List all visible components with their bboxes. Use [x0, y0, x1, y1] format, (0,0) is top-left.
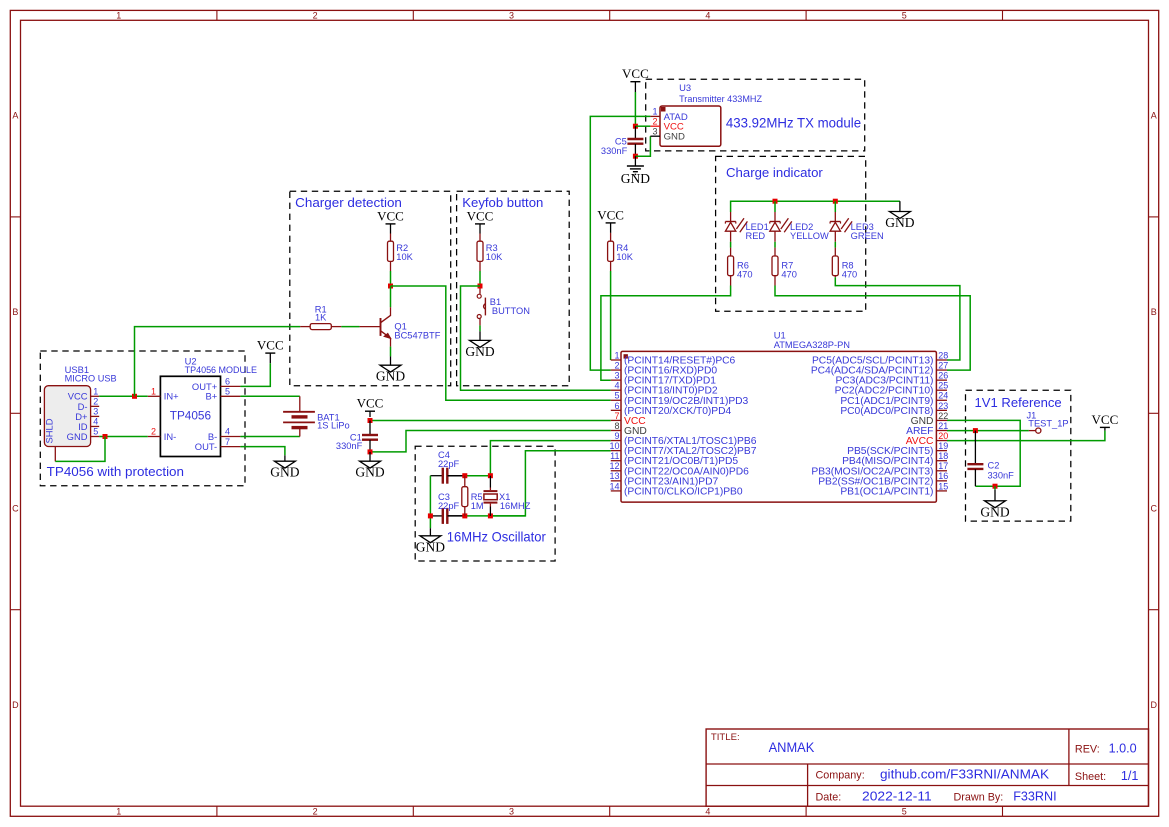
capacitor C5 330nF: [601, 126, 643, 156]
ground below B1: [465, 331, 494, 359]
power VCC above R4: [597, 207, 624, 233]
svg-text:GND: GND: [416, 539, 445, 554]
svg-text:5: 5: [902, 806, 907, 816]
svg-text:4: 4: [614, 381, 619, 391]
svg-text:470: 470: [781, 269, 797, 279]
junction button node: [478, 284, 483, 289]
svg-text:5: 5: [614, 391, 619, 401]
svg-text:18: 18: [938, 451, 948, 461]
resistor R8 470: [832, 248, 857, 280]
svg-text:GND: GND: [270, 465, 299, 480]
svg-text:22pF: 22pF: [438, 459, 460, 469]
svg-text:3: 3: [509, 806, 514, 816]
svg-text:10: 10: [609, 441, 619, 451]
svg-text:Transmitter 433MHZ: Transmitter 433MHZ: [679, 93, 762, 104]
section box 16MHz Oscillator: [415, 446, 555, 561]
section box Charge indicator: [716, 156, 866, 311]
svg-text:7: 7: [225, 437, 230, 447]
junction collector node: [388, 284, 393, 289]
svg-text:16MHZ: 16MHZ: [500, 501, 531, 511]
wire oscillator top net: [448, 475, 465, 477]
svg-text:470: 470: [842, 269, 858, 279]
svg-text:BUTTON: BUTTON: [492, 306, 530, 316]
svg-text:IN+: IN+: [164, 391, 179, 402]
power VCC above C1: [357, 396, 384, 417]
capacitor C1 330nF: [336, 421, 378, 452]
svg-text:4: 4: [705, 10, 710, 20]
ground below oscillator: [416, 528, 445, 554]
svg-text:22: 22: [938, 411, 948, 421]
capacitor C3 22pF: [430, 492, 464, 524]
svg-text:A: A: [1151, 111, 1157, 121]
wire USB GND to IN-: [99, 436, 148, 438]
wire B1 to ground: [479, 325, 481, 331]
IC U2 TP4056 module: [148, 356, 257, 457]
wire R4 to RESET pin 1: [610, 261, 612, 271]
svg-text:GND: GND: [376, 369, 405, 384]
svg-text:22pF: 22pF: [438, 501, 460, 511]
battery BAT1 1S LiPo: [283, 396, 350, 436]
svg-text:13: 13: [609, 471, 619, 481]
svg-text:Charge indicator: Charge indicator: [726, 165, 823, 180]
capacitor C4 22pF: [430, 450, 464, 484]
svg-text:4: 4: [225, 427, 230, 437]
connector USB1 MICRO USB: [44, 364, 117, 461]
svg-text:330nF: 330nF: [988, 471, 1015, 481]
wire U3 GND pin link: [635, 136, 650, 156]
svg-text:5: 5: [902, 10, 907, 20]
wire U3 VCC pin link: [635, 125, 650, 127]
svg-text:3: 3: [614, 371, 619, 381]
svg-text:1: 1: [93, 387, 98, 397]
ground for LEDs: [885, 201, 914, 230]
svg-text:1K: 1K: [315, 313, 327, 323]
wire VCC to R4: [0, 0, 1, 1]
ground below C1: [355, 452, 384, 480]
junction C5 ground node: [633, 154, 638, 159]
wire ATAD to RXD pin 2: [590, 116, 650, 370]
svg-text:330nF: 330nF: [601, 146, 628, 156]
svg-text:ANMAK: ANMAK: [769, 740, 815, 755]
wire LED cathode rail to ground: [731, 201, 900, 212]
wire reference ground stub: [994, 486, 996, 490]
power VCC above U3: [622, 66, 649, 92]
svg-text:3: 3: [509, 10, 514, 20]
power VCC at AVCC: [1092, 412, 1119, 431]
wire oscillator bottom net: [448, 515, 465, 517]
wire collector node to PD3: [391, 286, 611, 400]
svg-text:SHLD: SHLD: [44, 418, 55, 443]
svg-text:GND: GND: [621, 171, 650, 186]
svg-text:17: 17: [938, 461, 948, 471]
IC U1 ATMEGA328P-PN: [609, 329, 948, 502]
svg-text:GND: GND: [664, 132, 685, 143]
svg-text:26: 26: [938, 371, 948, 381]
test point J1 TEST_1P: [1027, 410, 1069, 433]
svg-text:B: B: [1151, 307, 1157, 317]
resistor R7 470: [772, 248, 797, 286]
svg-text:5: 5: [93, 427, 98, 437]
wire B+ to battery: [240, 395, 299, 397]
junction U3 VCC node: [633, 124, 638, 129]
svg-text:11: 11: [610, 451, 619, 461]
ground below Q1: [376, 356, 405, 383]
resistor R4 10K: [610, 233, 612, 241]
svg-text:OUT-: OUT-: [195, 441, 217, 452]
junction X1 bottom: [488, 513, 493, 518]
wire XTAL2 pin 10 to crystal: [493, 451, 611, 516]
junction reference ground node: [993, 484, 998, 489]
svg-text:YELLOW: YELLOW: [790, 231, 829, 241]
wire AREF pin 21 to J1: [947, 430, 1029, 432]
svg-text:Date:: Date:: [816, 792, 842, 804]
svg-text:Drawn By:: Drawn By:: [954, 792, 1004, 804]
junction LED3 cathode: [833, 199, 838, 204]
svg-text:B: B: [12, 307, 18, 317]
svg-text:U3: U3: [679, 82, 691, 93]
svg-text:D: D: [12, 700, 19, 710]
svg-text:D: D: [1151, 700, 1158, 710]
capacitor C2 330nF: [967, 431, 1014, 487]
wire C1 VCC rail to pin 7: [370, 420, 611, 422]
svg-text:3: 3: [652, 126, 657, 136]
wire R6 to TXD pin 3: [601, 286, 731, 381]
section box Keyfob button: [457, 191, 570, 386]
svg-text:TEST_1P: TEST_1P: [1028, 419, 1068, 429]
wire OUT+ to VCC: [240, 363, 270, 386]
svg-text:GND: GND: [67, 431, 88, 442]
svg-text:VCC: VCC: [467, 208, 494, 223]
wire LED1 to R6: [730, 242, 732, 248]
svg-text:1S LiPo: 1S LiPo: [317, 421, 350, 431]
svg-text:GND: GND: [355, 465, 384, 480]
svg-text:TP4056 MODULE: TP4056 MODULE: [185, 364, 257, 375]
wire VBUS up to R1: [135, 327, 301, 397]
push button B1: [477, 288, 530, 325]
svg-text:15: 15: [938, 481, 948, 491]
svg-text:12: 12: [609, 461, 619, 471]
svg-text:1V1 Reference: 1V1 Reference: [975, 395, 1062, 410]
svg-text:28: 28: [938, 350, 948, 360]
wire USB VCC to IN+: [99, 395, 148, 397]
resistor R2 10K: [390, 234, 392, 242]
svg-text:1/1: 1/1: [1121, 769, 1139, 783]
wire R8 to PC5 pin 28: [835, 277, 960, 360]
svg-text:10K: 10K: [486, 252, 503, 262]
svg-text:470: 470: [737, 269, 753, 279]
svg-text:4: 4: [705, 806, 710, 816]
junction R5 top: [462, 473, 467, 478]
wire VCC to R2: [0, 0, 1, 1]
svg-text:3: 3: [93, 407, 98, 417]
junction AREF node: [973, 428, 978, 433]
junction USB VCC node: [132, 394, 137, 399]
resistor R1 1K: [300, 304, 341, 329]
junction C1 ground node: [368, 449, 373, 454]
svg-text:6: 6: [225, 377, 230, 387]
svg-text:2: 2: [151, 427, 156, 437]
svg-text:F33RNI: F33RNI: [1013, 790, 1056, 804]
svg-text:REV:: REV:: [1075, 743, 1100, 755]
svg-text:BC547BTF: BC547BTF: [394, 330, 440, 340]
svg-text:VCC: VCC: [257, 338, 284, 353]
svg-text:C5: C5: [615, 136, 627, 146]
title block: [706, 729, 1148, 806]
svg-text:2: 2: [313, 10, 318, 20]
svg-text:23: 23: [938, 401, 948, 411]
svg-text:1M: 1M: [471, 501, 484, 511]
svg-text:GND: GND: [465, 344, 494, 359]
ground at TP4056 output: [270, 455, 299, 479]
wire VBUS to R1: [0, 0, 1, 1]
svg-text:VCC: VCC: [622, 66, 649, 81]
svg-text:433.92MHz TX module: 433.92MHz TX module: [726, 115, 862, 130]
svg-text:(PCINT0/CLKO/ICP1)PB0: (PCINT0/CLKO/ICP1)PB0: [624, 486, 743, 497]
transistor Q1 BC547BTF: [360, 307, 441, 346]
svg-text:2: 2: [614, 360, 619, 370]
IC U3 Transmitter 433MHZ: [650, 82, 762, 146]
svg-text:24: 24: [938, 391, 948, 401]
wire collector to Q1: [390, 286, 392, 307]
svg-text:9: 9: [614, 431, 619, 441]
svg-text:10K: 10K: [616, 252, 633, 262]
svg-text:1: 1: [652, 107, 657, 117]
junction USB GND node: [103, 434, 108, 439]
svg-text:19: 19: [938, 441, 948, 451]
svg-text:Company:: Company:: [816, 769, 865, 781]
wire XTAL1 pin 9 to crystal: [490, 441, 610, 474]
wire GND pin 22 loop: [947, 420, 1020, 486]
wire oscillator ground leg: [429, 476, 431, 529]
svg-text:25: 25: [938, 381, 948, 391]
svg-text:TITLE:: TITLE:: [711, 732, 740, 743]
wire R7 to PC4 pin 27: [775, 286, 970, 371]
wire B- to battery: [240, 436, 299, 438]
power VCC above R3: [467, 208, 494, 233]
svg-text:C: C: [12, 504, 19, 514]
svg-text:github.com/F33RNI/ANMAK: github.com/F33RNI/ANMAK: [880, 767, 1050, 781]
wire LED2 cathode: [774, 201, 776, 212]
section box 433.92MHz TX module: [646, 79, 865, 151]
svg-text:TP4056 with protection: TP4056 with protection: [47, 464, 184, 479]
wire R3 to button node: [479, 261, 481, 271]
svg-text:10K: 10K: [396, 252, 413, 262]
svg-text:1: 1: [151, 387, 156, 397]
power VCC above R2: [377, 208, 404, 233]
junction C3 ground leg: [428, 513, 433, 518]
svg-text:6: 6: [614, 401, 619, 411]
svg-text:VCC: VCC: [377, 208, 404, 223]
svg-text:21: 21: [938, 421, 948, 431]
wire R2 to collector node: [390, 261, 392, 271]
svg-text:A: A: [12, 111, 18, 121]
svg-text:330nF: 330nF: [336, 441, 363, 451]
svg-text:TP4056: TP4056: [170, 408, 212, 422]
wire Q1 emitter to ground: [390, 347, 392, 357]
svg-text:ATMEGA328P-PN: ATMEGA328P-PN: [774, 339, 850, 350]
svg-text:1.0.0: 1.0.0: [1109, 741, 1137, 755]
svg-text:1: 1: [116, 10, 121, 20]
section box 1V1 Reference: [966, 390, 1071, 521]
resistor R3 10K: [479, 234, 481, 242]
svg-text:VCC: VCC: [597, 207, 624, 222]
svg-text:IN-: IN-: [164, 431, 177, 442]
wire button node to PD2: [461, 286, 611, 390]
svg-text:2: 2: [93, 397, 98, 407]
junction X1 top: [488, 473, 493, 478]
wire LED2 to R7: [774, 242, 776, 248]
svg-text:7: 7: [614, 411, 619, 421]
svg-text:C2: C2: [988, 461, 1000, 471]
svg-text:8: 8: [614, 421, 619, 431]
wire shield to GND net: [55, 437, 105, 462]
svg-text:1: 1: [116, 806, 121, 816]
svg-text:2: 2: [313, 806, 318, 816]
junction R5 bottom: [462, 513, 467, 518]
svg-text:C: C: [1151, 504, 1158, 514]
resistor R5 1M: [462, 476, 484, 516]
junction VCC C1 node: [368, 418, 373, 423]
wire VCC down to C5: [634, 92, 636, 126]
svg-text:16MHz Oscillator: 16MHz Oscillator: [447, 530, 546, 545]
section box Charger detection: [290, 191, 451, 386]
svg-text:4: 4: [93, 417, 98, 427]
wire AVCC pin 20 to VCC: [947, 431, 1105, 441]
svg-text:20: 20: [938, 431, 948, 441]
svg-text:2022-12-11: 2022-12-11: [862, 790, 932, 804]
section box TP4056 with protection: [40, 351, 245, 486]
wire LED3 cathode: [834, 201, 836, 212]
wire VCC to R3: [0, 0, 1, 1]
svg-text:Sheet:: Sheet:: [1075, 771, 1106, 783]
wire ground rail to pin 8: [370, 431, 611, 452]
svg-text:27: 27: [938, 360, 948, 370]
svg-text:PB1(OC1A/PCINT1): PB1(OC1A/PCINT1): [840, 486, 933, 497]
svg-text:2: 2: [652, 116, 657, 126]
LED LED2 YELLOW: [770, 212, 829, 242]
LED LED3 GREEN: [830, 212, 884, 242]
svg-text:MICRO USB: MICRO USB: [65, 373, 117, 384]
svg-text:GND: GND: [980, 504, 1009, 519]
svg-text:5: 5: [225, 387, 230, 397]
crystal X1 16MHZ: [484, 476, 531, 516]
svg-text:VCC: VCC: [1092, 412, 1119, 427]
svg-text:1: 1: [614, 350, 619, 360]
power VCC at TP4056 output: [257, 338, 284, 364]
svg-text:B+: B+: [205, 391, 217, 402]
svg-text:VCC: VCC: [357, 396, 384, 411]
svg-text:14: 14: [609, 481, 619, 491]
wire LED3 to R8: [834, 242, 836, 248]
svg-text:GREEN: GREEN: [851, 231, 884, 241]
svg-text:16: 16: [938, 471, 948, 481]
LED LED1 RED: [725, 212, 768, 242]
resistor R6 470: [728, 248, 753, 286]
earth ground below C5: [621, 156, 650, 186]
svg-text:RED: RED: [746, 231, 766, 241]
svg-text:GND: GND: [885, 215, 914, 230]
ground for reference: [980, 490, 1009, 520]
wire R1 to Q1 base: [341, 326, 359, 328]
wire OUT- to GND: [240, 447, 285, 456]
junction LED2 cathode: [773, 199, 778, 204]
